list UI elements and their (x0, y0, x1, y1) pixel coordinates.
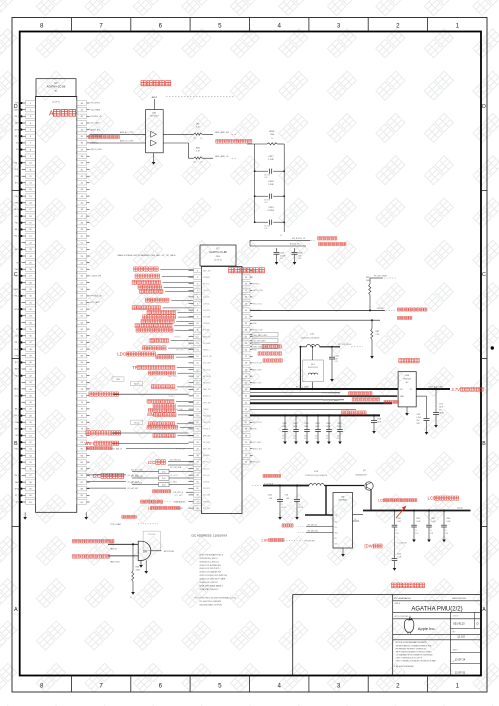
svg-text:R21: R21 (196, 147, 201, 149)
svg-text:56: 56 (245, 350, 248, 352)
svg-text:60: 60 (29, 495, 32, 497)
svg-text:DN: DN (143, 550, 147, 554)
svg-text:43: 43 (81, 189, 84, 191)
svg-text:C125: C125 (439, 404, 443, 406)
svg-text:81: 81 (81, 442, 84, 444)
svg-text:TIGRIS_: TIGRIS_ (203, 409, 209, 411)
svg-text:7: 7 (99, 22, 103, 29)
svg-text:5: 5 (30, 129, 32, 131)
svg-text:10UF: 10UF (315, 426, 319, 428)
svg-text:BUCK2_S: BUCK2_S (203, 396, 210, 398)
svg-text:13 OF 51: 13 OF 51 (455, 672, 466, 675)
svg-text:CLK32K_PM: CLK32K_PM (91, 276, 102, 278)
svg-text:14: 14 (196, 350, 199, 352)
svg-text:29: 29 (196, 449, 199, 451)
svg-text:0X07 LDO4 SDIO 3V0 PWR ON: 0X07 LDO4 SDIO 3V0 PWR ON (200, 575, 228, 577)
svg-text:39: 39 (81, 163, 84, 165)
svg-text:PPVBU: PPVBU (15, 355, 22, 357)
svg-text:39: 39 (29, 356, 32, 358)
svg-text:TIGRIS_I: TIGRIS_I (168, 396, 175, 398)
svg-text:6: 6 (159, 22, 163, 29)
svg-text:4: 4 (277, 22, 281, 29)
svg-text:NTC_B: NTC_B (15, 362, 22, 364)
svg-text:72: 72 (245, 455, 248, 457)
svg-text:6.3V: 6.3V (298, 258, 301, 260)
svg-text:PROPRIETARY PROPERTY OF APPLE: PROPRIETARY PROPERTY OF APPLE INC. (396, 648, 428, 651)
svg-text:RESET_L: RESET_L (175, 337, 182, 339)
svg-text:1 TO MAINTAIN THIS DOCUMENT IN: 1 TO MAINTAIN THIS DOCUMENT IN CONFIDENC… (396, 654, 433, 657)
svg-text:6.3V: 6.3V (280, 258, 283, 260)
svg-text:LCD: LCD (428, 496, 437, 501)
svg-text:C519: C519 (269, 207, 275, 209)
svg-text:AWD_DC_CTRL: AWD_DC_CTRL (120, 140, 133, 143)
svg-text:50: 50 (29, 429, 32, 431)
svg-text:C514: C514 (446, 518, 450, 520)
svg-text:5: 5 (218, 682, 222, 689)
svg-text:-20%: -20% (315, 438, 319, 440)
svg-text:3.7V: 3.7V (451, 387, 460, 392)
svg-text:7: 7 (30, 143, 32, 145)
svg-text:30: 30 (29, 296, 32, 298)
svg-text:4: 4 (30, 123, 32, 125)
svg-text:5: 5 (218, 22, 222, 29)
svg-text:16V: 16V (337, 436, 340, 438)
svg-text:SYC AGATHA-N-R: SYC AGATHA-N-R (394, 597, 411, 600)
svg-text:1: 1 (30, 103, 32, 105)
svg-text:33: 33 (196, 475, 199, 477)
svg-text:27: 27 (29, 276, 32, 278)
svg-text:1UF: 1UF (286, 498, 289, 500)
svg-text:44: 44 (81, 196, 84, 198)
svg-text:20: 20 (196, 389, 199, 391)
svg-text:R87: R87 (376, 331, 379, 333)
svg-text:PP_VC: PP_VC (15, 136, 21, 138)
svg-text:TPS5_ENAB: TPS5_ENAB (110, 523, 121, 526)
svg-text:R116: R116 (269, 131, 275, 133)
svg-text:21: 21 (29, 236, 32, 238)
svg-text:290K: 290K (270, 134, 275, 136)
svg-text:64: 64 (245, 402, 248, 404)
svg-text:C523: C523 (315, 423, 319, 425)
svg-text:62: 62 (81, 316, 84, 318)
svg-text:PM_UN: PM_UN (14, 475, 21, 477)
svg-text:WDOG_PM: WDOG_PM (203, 356, 212, 358)
svg-text:40: 40 (29, 362, 32, 364)
svg-text:NOTICE OF PROPRIETARY PROPERTY: NOTICE OF PROPRIETARY PROPERTY (396, 641, 428, 644)
svg-text:VIN: VIN (335, 515, 338, 517)
svg-text:BBC_BAT_UNPL: BBC_BAT_UNPL (254, 334, 268, 337)
svg-text:2.2K: 2.2K (376, 334, 380, 336)
svg-text:0.22UF: 0.22UF (268, 210, 275, 212)
svg-text:LED_BN_CN: LED_BN_CN (307, 524, 318, 526)
svg-text:RESET_L: RESET_L (253, 284, 261, 286)
svg-text:C113: C113 (417, 414, 421, 416)
svg-text:OF: OF (453, 661, 455, 663)
svg-text:R24: R24 (136, 566, 139, 568)
svg-text:23: 23 (29, 249, 32, 251)
svg-text:U21: U21 (341, 496, 344, 498)
svg-text:72: 72 (81, 382, 84, 384)
svg-text:TIGRIS_I: TIGRIS_I (253, 343, 261, 345)
svg-text:14: 14 (29, 189, 32, 191)
svg-text:AWD_AWD_EN: AWD_AWD_EN (215, 131, 229, 134)
svg-text:GND: GND (253, 323, 258, 325)
svg-text:15: 15 (196, 356, 199, 358)
svg-text:BATT_: BATT_ (15, 481, 20, 484)
svg-text:30: 30 (196, 455, 199, 457)
svg-text:0X05 LDO2 1V8 PORT 2: 0X05 LDO2 1V8 PORT 2 (200, 568, 221, 570)
svg-text:LC2_SHUBXN: LC2_SHUBXN (397, 543, 407, 545)
svg-text:VBAT: VBAT (400, 395, 404, 398)
svg-text:AMUX_AY: AMUX_AY (203, 335, 211, 338)
svg-text:2: 2 (197, 270, 199, 272)
svg-text:FB: FB (354, 519, 356, 521)
svg-text:70: 70 (81, 369, 84, 371)
svg-text:76: 76 (81, 409, 84, 411)
svg-text:BATT_: BATT_ (15, 122, 20, 125)
svg-text:34: 34 (196, 482, 199, 484)
svg-text:70: 70 (245, 442, 248, 444)
svg-text:41: 41 (29, 369, 32, 371)
svg-text:AWD_B: AWD_B (14, 288, 21, 291)
svg-text:63: 63 (81, 322, 84, 324)
svg-text:16V: 16V (315, 436, 318, 438)
svg-text:6: 6 (159, 682, 163, 689)
svg-text:I2C: I2C (148, 460, 156, 465)
svg-text:65: 65 (245, 409, 248, 411)
svg-text:PM_GPIO2: PM_GPIO2 (91, 103, 100, 105)
svg-text:I2C0_SC: I2C0_SC (203, 468, 210, 470)
svg-text:C520: C520 (282, 423, 286, 425)
svg-text:C522: C522 (304, 423, 308, 425)
svg-text:L15: L15 (310, 334, 314, 336)
svg-text:2.2UH-20%-1%(L-0.47A)XXX: 2.2UH-20%-1%(L-0.47A)XXX (305, 474, 328, 477)
svg-text:68: 68 (81, 356, 84, 358)
svg-text:26: 26 (29, 269, 32, 271)
svg-text:VBAT_PM: VBAT_PM (203, 388, 211, 391)
svg-text:*NOV5102: *NOV5102 (148, 534, 156, 536)
svg-text:PP1V8_S: PP1V8_S (203, 429, 210, 431)
svg-text:-X5: -X5 (200, 138, 203, 140)
svg-text:16V: 16V (282, 436, 285, 438)
svg-text:58: 58 (81, 289, 84, 291)
svg-text:PP1V8_SW: PP1V8_SW (253, 363, 262, 365)
svg-text:100R: 100R (136, 569, 141, 571)
svg-text:X5R: X5R (396, 533, 400, 535)
svg-text:9: 9 (30, 156, 32, 158)
svg-text:27: 27 (196, 435, 199, 437)
svg-text:1%: 1% (271, 138, 274, 140)
svg-text:8: 8 (40, 682, 44, 689)
svg-text:2.2K: 2.2K (193, 138, 196, 140)
svg-text:25: 25 (445, 530, 447, 532)
svg-text:C511: C511 (397, 518, 401, 520)
svg-text:GPIO_: GPIO_ (15, 435, 20, 437)
svg-text:57: 57 (245, 356, 248, 358)
svg-text:29: 29 (29, 289, 32, 291)
svg-text:REV: REV (453, 632, 456, 634)
svg-text:10UF: 10UF (326, 426, 330, 428)
svg-text:PM_LD: PM_LD (15, 222, 22, 224)
svg-text:U?: U? (217, 249, 221, 251)
svg-text:(1 OF 2): (1 OF 2) (52, 101, 60, 103)
svg-text:EN: EN (335, 538, 337, 540)
svg-text:35: 35 (196, 488, 199, 490)
svg-text:RESET: RESET (15, 202, 22, 204)
svg-text:PM_GPIO: PM_GPIO (203, 488, 211, 490)
svg-text:I2C_AP_SCL: I2C_AP_SCL (128, 474, 139, 477)
svg-text:46: 46 (29, 402, 32, 404)
svg-text:2: 2 (396, 22, 400, 29)
svg-text:C521: C521 (280, 253, 284, 255)
svg-text:1.8V2SC: 1.8V2SC (377, 308, 385, 310)
svg-text:4: 4 (277, 682, 281, 689)
svg-text:77: 77 (81, 415, 84, 417)
svg-text:C517: C517 (269, 156, 275, 158)
svg-text:19: 19 (29, 223, 32, 225)
svg-text:C512: C512 (416, 518, 420, 520)
svg-text:WDOG_PMU: WDOG_PMU (91, 149, 103, 151)
svg-text:PM_GP: PM_GP (14, 163, 21, 165)
svg-text:VDD_MAIN: VDD_MAIN (169, 481, 178, 484)
svg-text:31: 31 (29, 302, 32, 304)
svg-text:I2C0_: I2C0_ (16, 149, 21, 151)
svg-text:79: 79 (81, 429, 84, 431)
svg-text:PP_VCC_MAIN: PP_VCC_MAIN (296, 385, 309, 388)
svg-text:VDD_MAI: VDD_MAI (203, 316, 211, 319)
svg-text:1.8V: 1.8V (261, 538, 269, 542)
svg-text:2: 2 (396, 682, 400, 689)
svg-text:6.3V: 6.3V (335, 361, 338, 363)
svg-text:C96: C96 (285, 495, 288, 497)
svg-text:60: 60 (81, 302, 84, 304)
svg-text:VBAT_PMU: VBAT_PMU (168, 375, 177, 378)
svg-text:PAM RX: PAM RX (110, 548, 118, 551)
svg-text:X5R: X5R (417, 423, 421, 425)
svg-text:DC0: DC0 (162, 472, 166, 474)
svg-text:C: C (482, 272, 486, 278)
svg-text:I2C0_SD: I2C0_SD (203, 297, 210, 299)
svg-text:71: 71 (245, 449, 248, 451)
svg-text:1: 1 (456, 682, 460, 689)
svg-text:55: 55 (29, 462, 32, 464)
svg-text:WAKE VOLTAGE LIMIT IS WARNING: WAKE VOLTAGE LIMIT IS WARNING + MIN_NAP … (118, 254, 177, 257)
svg-text:13.8_A: 13.8_A (457, 506, 463, 509)
svg-text:-20%: -20% (293, 438, 297, 440)
svg-text:25V X5R: 25V X5R (264, 175, 271, 177)
svg-text:U7: U7 (54, 81, 58, 85)
svg-text:47: 47 (29, 409, 32, 411)
svg-text:PMU_A: PMU_A (15, 448, 22, 451)
svg-text:0X0A GPIO WAKE MASK 0: 0X0A GPIO WAKE MASK 0 (200, 584, 223, 587)
svg-text:48: 48 (81, 223, 84, 225)
svg-text:0.1UF: 0.1UF (417, 417, 421, 419)
svg-text:-20%: -20% (264, 202, 268, 204)
svg-text:CHG_S: CHG_S (15, 276, 22, 278)
svg-text:R313: R313 (112, 433, 117, 435)
svg-text:PPVBUS_: PPVBUS_ (203, 323, 210, 325)
svg-text:84: 84 (81, 462, 84, 464)
svg-text:BATT_SWI: BATT_SWI (253, 382, 262, 385)
svg-text:78: 78 (81, 422, 84, 424)
svg-text:42: 42 (29, 376, 32, 378)
svg-text:PM_KEEP: PM_KEEP (203, 343, 211, 345)
svg-text:12UF: 12UF (439, 407, 443, 409)
svg-text:TPS61020: TPS61020 (403, 379, 411, 381)
svg-text:61: 61 (29, 502, 32, 504)
svg-text:3: 3 (197, 277, 199, 279)
svg-text:28: 28 (29, 282, 32, 284)
svg-text:10UF: 10UF (293, 426, 297, 428)
svg-text:11.0.0: 11.0.0 (457, 634, 465, 638)
svg-text:AMUX_AY1: AMUX_AY1 (91, 128, 101, 131)
svg-text:NTC_B: NTC_B (15, 183, 22, 185)
svg-text:CLK32: CLK32 (15, 335, 20, 337)
svg-text:1.2UF: 1.2UF (268, 159, 274, 161)
svg-text:0.01UF: 0.01UF (280, 255, 286, 257)
svg-text:AGATHA-CC-B0: AGATHA-CC-B0 (209, 251, 227, 254)
svg-text:PPVBUS_US: PPVBUS_US (91, 116, 103, 118)
svg-text:58: 58 (245, 363, 248, 365)
svg-text:46: 46 (81, 209, 84, 211)
svg-text:CLK32K_: CLK32K_ (203, 482, 210, 484)
svg-text:AWD_B: AWD_B (14, 108, 21, 111)
svg-text:9: 9 (197, 317, 199, 319)
svg-text:PP1V8_SW: PP1V8_SW (305, 541, 315, 543)
svg-text:55: 55 (81, 269, 84, 271)
svg-text:SPKAM: SPKAM (14, 128, 21, 131)
svg-text:PPV7_PMGR_AWM: PPV7_PMGR_AWM (322, 392, 340, 395)
svg-text:62: 62 (245, 389, 248, 391)
svg-text:0X06 LDO3 CAM AF 2V8: 0X06 LDO3 CAM AF 2V8 (200, 571, 221, 574)
svg-text:VDD_M: VDD_M (14, 169, 21, 171)
svg-text:PP_CPU_PMGR: PP_CPU_PMGR (374, 275, 388, 277)
svg-text:59: 59 (81, 296, 84, 298)
svg-text:A: A (14, 607, 18, 613)
svg-text:BUCK2: BUCK2 (15, 249, 21, 251)
svg-text:50: 50 (81, 236, 84, 238)
svg-text:0X0B STAT CHG EOC: 0X0B STAT CHG EOC (200, 588, 220, 591)
svg-text:BATT_SW: BATT_SW (203, 269, 211, 272)
svg-text:51: 51 (245, 317, 248, 319)
svg-text:AWDP: AWDP (152, 96, 158, 99)
svg-text:U31: U31 (152, 113, 157, 115)
svg-text:DC0: DC0 (162, 478, 166, 480)
svg-text:69: 69 (81, 362, 84, 364)
svg-text:C252: C252 (268, 495, 272, 497)
svg-text:NLVC2G07: NLVC2G07 (150, 116, 159, 118)
svg-text:34: 34 (29, 322, 32, 324)
svg-text:25: 25 (29, 262, 32, 264)
svg-text:B0841A29XXX: B0841A29XXX (356, 473, 368, 476)
svg-text:35: 35 (81, 136, 84, 138)
svg-text:37: 37 (29, 342, 32, 344)
svg-text:1.0UF: 1.0UF (416, 521, 420, 523)
svg-text:54: 54 (81, 262, 84, 264)
svg-text:11: 11 (29, 169, 32, 171)
svg-text:25V X5R: 25V X5R (264, 226, 271, 228)
svg-text:PM_LDO1: PM_LDO1 (203, 369, 211, 371)
svg-text:PM_SW: PM_SW (14, 236, 21, 238)
svg-text:8: 8 (197, 310, 199, 312)
svg-text:BB_VB: BB_VB (15, 229, 21, 231)
svg-text:13: 13 (29, 183, 32, 185)
svg-text:PPVBUS_: PPVBUS_ (203, 501, 210, 503)
svg-text:PM_GPIO: PM_GPIO (203, 310, 211, 312)
svg-text:GPIO_SW: GPIO_SW (203, 402, 211, 404)
svg-text:Apple Inc.: Apple Inc. (418, 626, 436, 631)
svg-text:SDA: SDA (335, 532, 338, 535)
svg-text:-20%: -20% (264, 177, 268, 179)
svg-text:17: 17 (29, 209, 32, 211)
svg-text:49: 49 (81, 229, 84, 231)
svg-text:-20%: -20% (304, 438, 308, 440)
svg-text:C123: C123 (377, 419, 381, 421)
svg-text:C142: C142 (335, 356, 339, 358)
svg-text:40: 40 (81, 169, 84, 171)
svg-text:WDT_V11_TG: WDT_V11_TG (174, 502, 186, 504)
svg-text:44: 44 (29, 389, 32, 391)
svg-text:65: 65 (81, 336, 84, 338)
svg-text:12: 12 (196, 336, 199, 338)
svg-text:AMUX_: AMUX_ (15, 368, 21, 371)
svg-text:AGATHA PMU(2/2): AGATHA PMU(2/2) (411, 606, 462, 612)
svg-text:45: 45 (245, 277, 248, 279)
svg-text:-X5: -X5 (200, 162, 203, 164)
svg-text:3 NOT TO REVEAL OR PUBLISH IT: 3 NOT TO REVEAL OR PUBLISH IT IN WHOLE O… (396, 660, 436, 663)
svg-text:B: B (482, 441, 486, 447)
svg-text:MH2654(XXX): MH2654(XXX) (308, 367, 319, 369)
svg-text:3: 3 (30, 116, 32, 118)
svg-text:I2C0_SC: I2C0_SC (203, 290, 210, 292)
svg-text:32: 32 (29, 309, 32, 311)
svg-text:1: 1 (456, 22, 460, 29)
svg-text:71: 71 (81, 376, 84, 378)
svg-text:SPKAMP_: SPKAMP_ (203, 276, 211, 279)
svg-text:80: 80 (81, 435, 84, 437)
svg-text:0X01 TPI8 SDRAM PORT 0: 0X01 TPI8 SDRAM PORT 0 (200, 553, 224, 556)
svg-text:21: 21 (196, 396, 199, 398)
svg-text:-20%: -20% (326, 438, 330, 440)
svg-text:10UF: 10UF (282, 426, 286, 428)
svg-text:2.2UH-20%-1.1A-2(XXX): 2.2UH-20%-1.1A-2(XXX) (301, 336, 320, 339)
svg-text:15: 15 (29, 196, 32, 198)
svg-text:PM_GP: PM_GP (14, 342, 21, 344)
svg-text:41: 41 (81, 176, 84, 178)
svg-text:53: 53 (81, 256, 84, 258)
svg-text:PP_VCC_M: PP_VCC_M (176, 449, 185, 451)
svg-text:PM_RST_B: PM_RST_B (174, 492, 184, 494)
svg-text:74: 74 (81, 395, 84, 397)
svg-text:7: 7 (99, 682, 103, 689)
svg-text:I2C_AP_SDA: I2C_AP_SDA (128, 481, 140, 484)
svg-text:WDT_BAT_B: WDT_BAT_B (111, 448, 122, 451)
svg-text:PM_GPIO2: PM_GPIO2 (170, 475, 178, 477)
svg-text:R4: R4 (197, 124, 201, 126)
svg-text:13 OF 24: 13 OF 24 (455, 659, 466, 662)
svg-text:AWD_AWD_LD: AWD_AWD_LD (215, 155, 229, 158)
svg-text:49: 49 (29, 422, 32, 424)
svg-text:PM_LDO12: PM_LDO12 (253, 303, 262, 305)
svg-text:2.2K: 2.2K (193, 162, 196, 164)
svg-text:6: 6 (30, 136, 32, 138)
svg-text:WR-20: WR-20 (298, 507, 303, 509)
svg-text:36: 36 (81, 143, 84, 145)
svg-text:PM_UNPL: PM_UNPL (203, 442, 211, 444)
svg-text:CLK32K_: CLK32K_ (203, 303, 210, 305)
svg-text:PM_UN: PM_UN (14, 116, 21, 118)
svg-text:0X04 LDO1 BYPASS EN: 0X04 LDO1 BYPASS EN (200, 564, 222, 567)
